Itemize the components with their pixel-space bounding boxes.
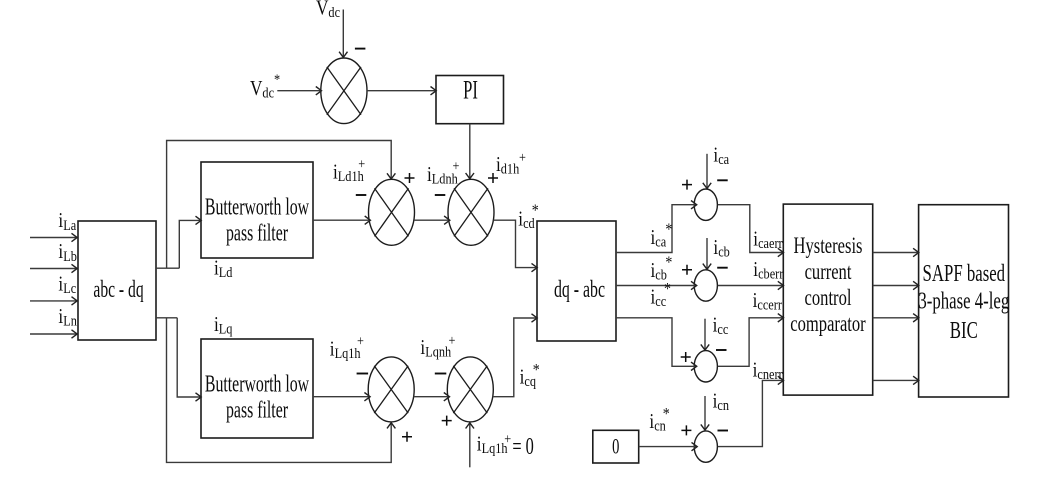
wire S2 output iLdnh into S3 xyxy=(414,219,450,221)
svg-text:3-phase 4-leg: 3-phase 4-leg xyxy=(918,289,1009,314)
wire hysteresis output n to SAPF xyxy=(873,379,919,381)
svg-text:BIC: BIC xyxy=(950,318,978,343)
summing junction SB (phase b error) xyxy=(694,270,717,301)
plus sign at SB left input xyxy=(682,265,692,275)
label Butterworth low pass filter 2 xyxy=(205,371,309,423)
svg-text:*: * xyxy=(664,280,671,299)
plus sign at SA left input xyxy=(682,180,692,190)
wire iLq stub from abc-dq xyxy=(156,317,177,319)
svg-text:Butterworth low: Butterworth low xyxy=(205,194,309,220)
block PI controller xyxy=(436,76,504,124)
summing junction S1 (Vdc error) xyxy=(321,58,367,124)
svg-text:Butterworth low: Butterworth low xyxy=(205,371,309,397)
wire icc* from dq-abc into SC xyxy=(616,318,697,367)
plus sign at S4 bottom input xyxy=(402,432,412,442)
wire iLq feedforward under filter into S4 bottom xyxy=(167,318,392,463)
minus sign at S5 left input xyxy=(435,373,447,375)
svg-text:control: control xyxy=(805,285,852,310)
svg-text:*: * xyxy=(532,201,539,220)
minus sign at SD top input xyxy=(718,430,729,432)
svg-text:Vdc​: Vdc​ xyxy=(316,0,340,20)
wire input iLa xyxy=(30,237,77,239)
wire hysteresis output a to SAPF xyxy=(873,252,919,254)
svg-text:comparator: comparator xyxy=(790,311,866,336)
svg-text:abc - dq: abc - dq xyxy=(93,277,143,303)
wire input iLn xyxy=(30,333,77,335)
wire Butterworth1 output iLd1h into S2 xyxy=(313,219,370,221)
wire icd* from S3 into dq-abc xyxy=(493,220,537,267)
wire iLq1h*=0 input up into S5 xyxy=(469,423,471,467)
wire zero reference into SD xyxy=(639,446,697,448)
summing junction SA (phase a error) xyxy=(694,189,717,220)
block SAPF based 3-phase 4-leg BIC xyxy=(919,205,1009,397)
minus sign at S4 left input xyxy=(357,373,369,375)
block Butterworth low pass filter (d-axis) xyxy=(201,162,313,258)
label 0 xyxy=(612,435,619,460)
wire icberr from SB into hysteresis block xyxy=(718,285,783,287)
wire iccerr from SC into hysteresis block xyxy=(718,318,783,367)
plus sign at S3 top input xyxy=(488,173,498,183)
wire PI output down into S3 xyxy=(469,124,471,179)
wire Vdc* input (into S1) xyxy=(277,90,321,92)
minus sign at SB top input xyxy=(717,267,728,269)
svg-text:*: * xyxy=(533,361,540,380)
plus sign at S5 bottom input xyxy=(442,416,452,426)
wire Vdc input (down into S1) xyxy=(342,10,344,58)
wire Butterworth2 output iLq1h into S4 xyxy=(313,396,370,398)
plus sign at SD left input xyxy=(681,425,691,435)
svg-text:0: 0 xyxy=(612,435,619,460)
svg-text:Hysteresis: Hysteresis xyxy=(794,233,863,258)
wire icaerr from SA into hysteresis block xyxy=(718,205,783,253)
svg-text:pass filter: pass filter xyxy=(226,397,288,423)
svg-text:*: * xyxy=(665,220,672,239)
wire icn measured input down into SD xyxy=(704,396,706,430)
svg-text:*: * xyxy=(663,405,670,424)
summing junction SD (neutral error) xyxy=(694,431,717,462)
wire iLd feedforward over filter into S2 top xyxy=(167,141,392,269)
svg-text:pass filter: pass filter xyxy=(226,220,288,246)
plus sign at SC left input xyxy=(681,352,691,362)
wire S1 output to PI xyxy=(367,90,436,92)
svg-text:PI: PI xyxy=(463,76,478,105)
svg-text:= 0: = 0 xyxy=(512,434,533,460)
minus sign at SC top input xyxy=(716,349,727,351)
block abc-dq transform xyxy=(78,221,156,340)
plus sign at S2 top input xyxy=(405,173,415,183)
label PI xyxy=(463,76,478,105)
summing junction S5 (q-axis + iLq1h) xyxy=(447,357,493,422)
label SAPF based 3-phase 4-leg BIC xyxy=(918,261,1009,343)
wire ica measured input down into SA xyxy=(706,154,708,189)
svg-text:SAPF based: SAPF based xyxy=(923,261,1006,286)
svg-text:*: * xyxy=(665,253,672,272)
wire icq* from S5 into dq-abc xyxy=(493,318,537,397)
minus sign at SA top input xyxy=(717,179,728,181)
summing junction S4 (q-axis harmonic extract) xyxy=(368,357,414,422)
wire icb* from dq-abc into SB xyxy=(616,285,697,287)
wire ica* from dq-abc into SA xyxy=(616,205,697,253)
wire input iLc xyxy=(30,300,77,302)
wire icnerr from SD into hysteresis block xyxy=(718,380,783,446)
wire iLd stub from abc-dq xyxy=(156,267,179,269)
svg-text:dq - abc: dq - abc xyxy=(554,277,605,303)
block hysteresis current control comparator xyxy=(783,204,872,395)
label dq - abc xyxy=(554,277,605,303)
block zero reference xyxy=(593,430,639,463)
wire hysteresis output b to SAPF xyxy=(873,285,919,287)
svg-text:+: + xyxy=(357,333,364,349)
label Butterworth low pass filter 1 xyxy=(205,194,309,246)
svg-text:+: + xyxy=(519,149,526,165)
svg-text:current: current xyxy=(805,259,852,284)
wire hysteresis output c to SAPF xyxy=(873,317,919,319)
summing junction S3 (d-axis + id1h) xyxy=(448,179,494,245)
wire iLd into Butterworth filter 1 xyxy=(179,220,201,268)
svg-text:+: + xyxy=(358,155,365,171)
svg-text:+: + xyxy=(453,157,460,173)
minus sign at S3 left input xyxy=(435,194,446,196)
svg-text:+: + xyxy=(504,430,511,446)
label abc - dq xyxy=(93,277,143,303)
wire icc measured input down into SC xyxy=(704,319,706,350)
block Butterworth low pass filter (q-axis) xyxy=(201,339,313,438)
summing junction S2 (d-axis harmonic extract) xyxy=(369,179,415,245)
label Hysteresis current control comparator xyxy=(790,233,866,336)
wire S4 output iLqnh into S5 xyxy=(414,396,450,398)
wire input iLb xyxy=(30,268,77,270)
wire iLq into Butterworth filter 2 xyxy=(177,318,201,397)
summing junction SC (phase c error) xyxy=(694,351,717,382)
block dq-abc transform xyxy=(537,221,616,341)
wire icb measured input down into SB xyxy=(706,238,708,269)
minus sign at S1 top input xyxy=(355,48,366,50)
svg-text:+: + xyxy=(449,332,456,348)
minus sign at S2 left input xyxy=(356,194,367,196)
